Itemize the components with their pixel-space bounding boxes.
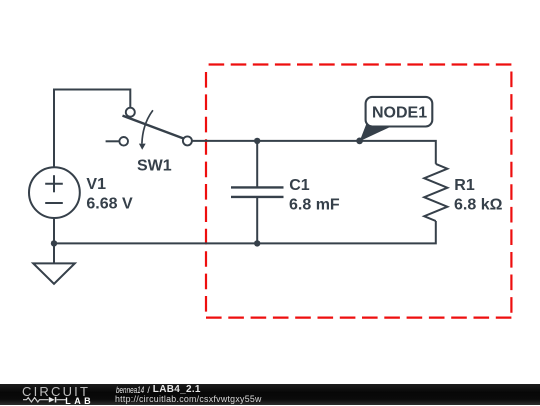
svg-text:NODE1: NODE1 <box>372 104 427 121</box>
svg-text:R1: R1 <box>454 177 475 194</box>
svg-text:6.8 kΩ: 6.8 kΩ <box>454 197 503 214</box>
svg-text:C1: C1 <box>289 177 310 194</box>
svg-text:6.8 mF: 6.8 mF <box>289 197 340 214</box>
svg-text:V1: V1 <box>86 176 106 193</box>
svg-text:SW1: SW1 <box>137 158 172 175</box>
svg-text:6.68 V: 6.68 V <box>86 196 133 213</box>
